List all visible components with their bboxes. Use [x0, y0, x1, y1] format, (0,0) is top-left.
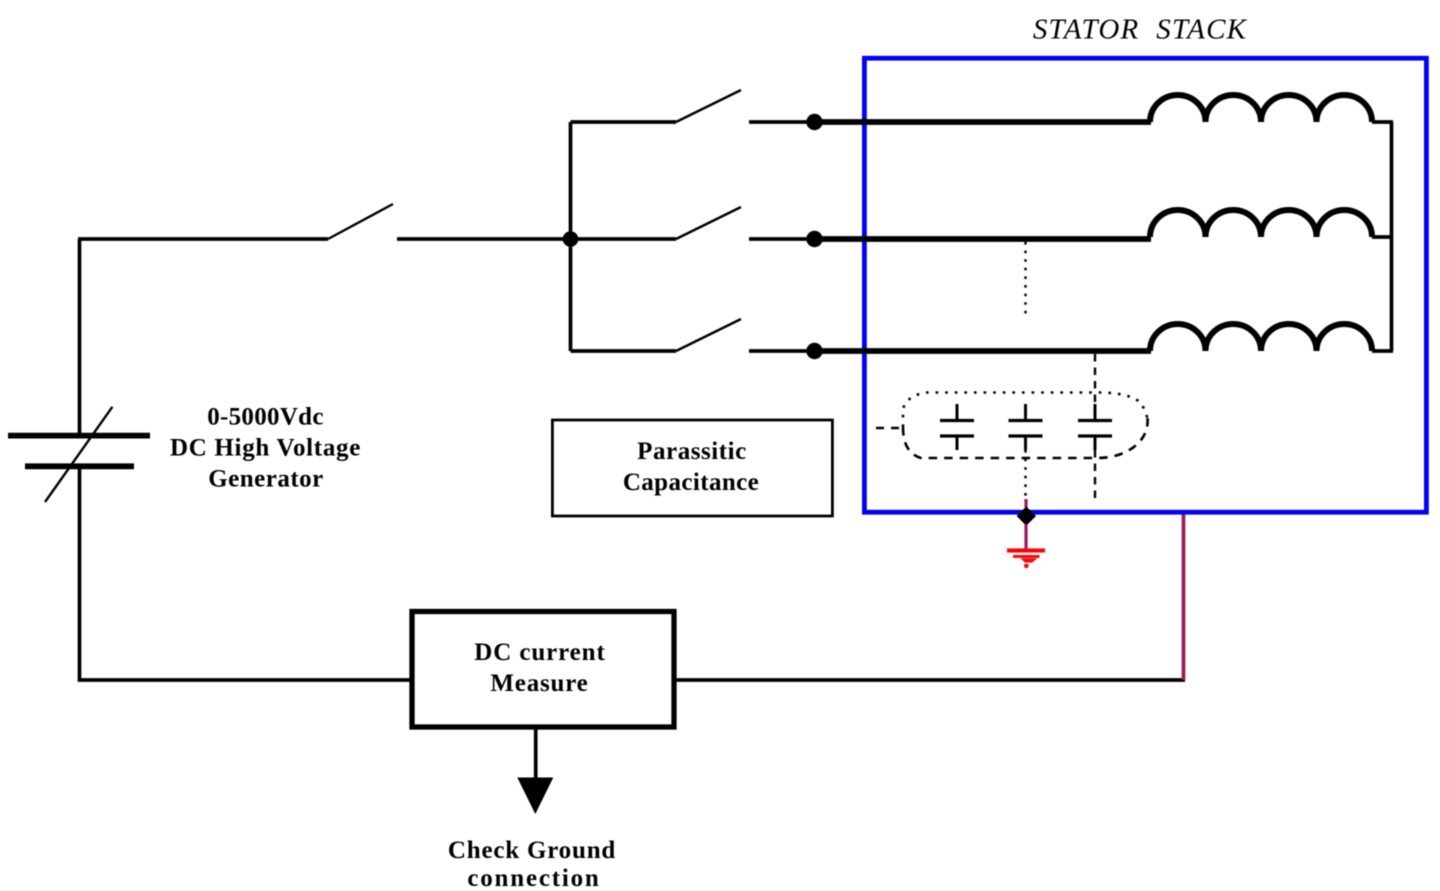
svg-text:Measure: Measure: [490, 670, 588, 697]
wire right vertical joining coils: [1390, 122, 1394, 351]
parasitic blob left stub (dashed): [876, 427, 904, 430]
inductor L2: [1150, 210, 1372, 237]
parasitic blob outline bottom (dashed): [903, 418, 1148, 458]
wire main horizontal from generator to switch S0: [78, 237, 328, 241]
svg-text:Capacitance: Capacitance: [623, 469, 759, 496]
wire row2 node to coil: [815, 236, 1152, 242]
generator G1 top plate: [8, 433, 150, 439]
node bus junction dot: [563, 231, 579, 247]
arrow head: [517, 778, 553, 815]
dotted lead C2 down to stator frame: [1024, 450, 1026, 500]
wire switch S0 to bus: [397, 237, 571, 241]
bus vertical wire: [569, 122, 573, 351]
switch S1 blade: [676, 90, 741, 122]
svg-text:STATOR STACK: STATOR STACK: [1033, 14, 1248, 46]
switch S0 blade: [328, 204, 393, 239]
svg-text:connection: connection: [467, 865, 600, 891]
wire row3 switch to node: [749, 349, 808, 353]
node junction dot row3: [806, 343, 822, 359]
DC current Measure box U1: [412, 612, 674, 728]
svg-text:DC High Voltage: DC High Voltage: [170, 435, 361, 462]
parasitic blob outline top (dotted): [903, 393, 1148, 428]
node junction dot row1: [806, 114, 822, 130]
switch S3 blade: [676, 319, 741, 351]
node ground junction diamond: [1017, 507, 1036, 526]
dashed lead C3 down: [1094, 450, 1096, 499]
wire left vertical lower (generator to bottom wire): [78, 468, 82, 681]
wire coil2 to right vertical: [1372, 235, 1393, 239]
svg-text:0-5000Vdc: 0-5000Vdc: [207, 404, 324, 431]
wire coil1 to right vertical: [1372, 120, 1393, 124]
red earth ground: [1007, 548, 1045, 568]
wire row1 switch to node: [749, 120, 808, 124]
switch S2 blade: [676, 207, 741, 239]
dashed link row3 to capacitor C3: [1094, 354, 1096, 404]
svg-text:Check Ground: Check Ground: [448, 837, 616, 864]
maroon stub above ground diamond: [1024, 499, 1027, 508]
wire row3 bus to switch S3: [571, 349, 677, 353]
wire row2 switch to node: [749, 237, 808, 241]
arrow stem below DC box: [534, 727, 538, 779]
node junction dot row2: [806, 231, 822, 247]
svg-text:Generator: Generator: [208, 466, 324, 493]
wire bottom left to DC current measure: [78, 678, 412, 682]
wire DC box right to stator stack: [674, 678, 1185, 682]
wire left vertical upper (to generator top plate): [78, 239, 82, 434]
stator stack enclosure box: [864, 58, 1426, 512]
generator G1 bottom plate: [25, 463, 134, 469]
capacitor C1: [940, 404, 974, 450]
Parassitic Capacitance label box: [552, 420, 832, 516]
wire row2 bus to switch S2: [571, 237, 677, 241]
inductor L3: [1150, 324, 1372, 351]
generator G1 variable slash: [45, 407, 112, 502]
inductor L1: [1150, 95, 1372, 122]
wire coil3 to right vertical: [1372, 349, 1393, 353]
capacitor C3: [1078, 404, 1112, 450]
wire row1 bus to switch S1: [571, 120, 677, 124]
svg-text:DC current: DC current: [474, 639, 605, 666]
maroon ground lead: [1024, 525, 1027, 550]
wire row1 node to coil: [815, 119, 1152, 125]
wire maroon vertical from stator stack: [1182, 515, 1186, 681]
wire row3 node to coil: [815, 348, 1152, 354]
svg-text:Parassitic: Parassitic: [637, 438, 747, 465]
dotted link row2 to capacitor C2: [1024, 242, 1026, 315]
capacitor C2: [1009, 404, 1043, 450]
